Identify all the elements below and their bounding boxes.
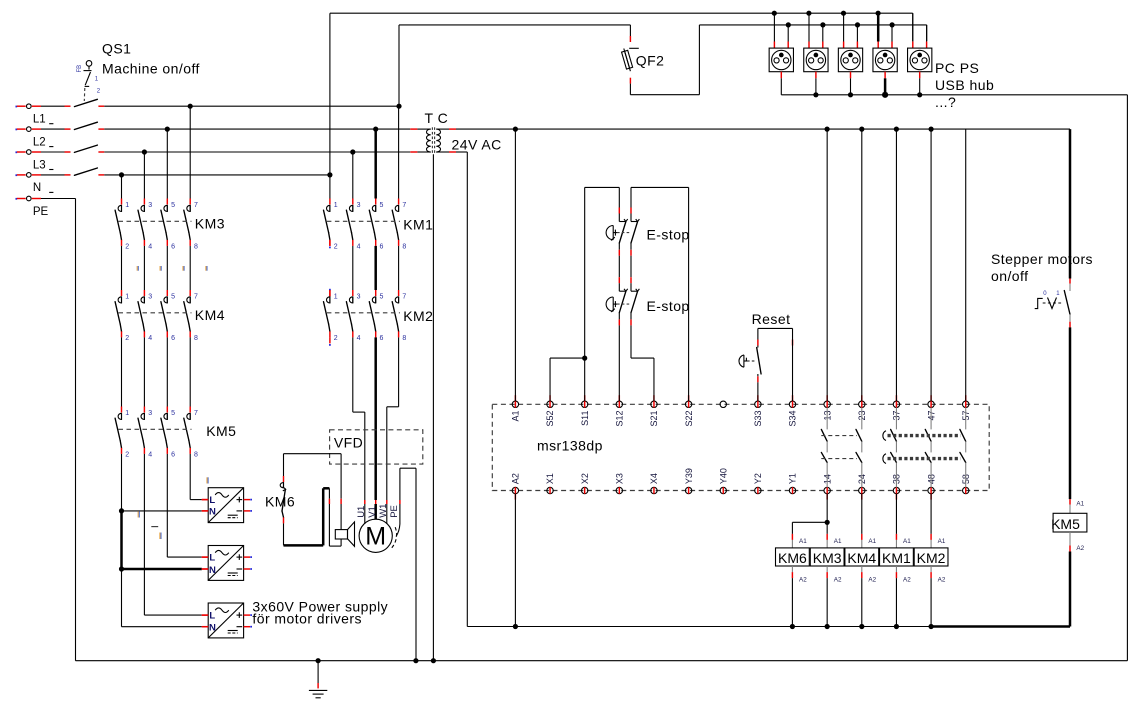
svg-text:8: 8: [402, 335, 406, 342]
E-stop 1 contact a: [618, 208, 620, 214]
svg-text:5: 5: [171, 202, 175, 209]
svg-text:8: 8: [402, 244, 406, 251]
wire KM6 bottom thick path: [283, 523, 285, 545]
wire rail1 end drop to socket5: [912, 13, 914, 41]
wire TC core earth: [432, 154, 434, 660]
svg-text:6: 6: [171, 335, 175, 342]
contact pole 3/4 at x=352.8: [352, 290, 354, 296]
svg-text:L: L: [209, 495, 215, 506]
wire L1 row: [104, 105, 399, 107]
svg-text:1: 1: [125, 202, 129, 209]
wire PE to earth rail: [415, 468, 417, 661]
contact pole 5/6 at x=167.3: [166, 407, 168, 413]
contact pole 7/8 at x=190.2: [189, 407, 191, 413]
svg-text:QF2: QF2: [636, 53, 665, 69]
svg-text:X1: X1: [545, 473, 555, 484]
svg-text:6: 6: [171, 452, 175, 459]
svg-text:L2: L2: [33, 136, 46, 148]
svg-text:V1: V1: [367, 506, 378, 518]
wires KM1 to KM2: [329, 240, 331, 246]
svg-text:4: 4: [148, 452, 152, 459]
wire top rail 1: [330, 12, 913, 14]
svg-text:3: 3: [148, 294, 152, 301]
wire A1 feed: [514, 129, 516, 401]
svg-text:6: 6: [380, 335, 384, 342]
svg-text:7: 7: [194, 410, 198, 417]
svg-text:KM4: KM4: [195, 307, 225, 323]
svg-text:KM6: KM6: [778, 550, 807, 566]
wire A2 to 0V rail: [514, 494, 516, 627]
svg-text:6: 6: [171, 244, 175, 251]
contact pole 5/6 at x=375.7: [375, 199, 377, 205]
svg-text:S22: S22: [684, 411, 694, 427]
svg-text:2: 2: [125, 335, 129, 342]
wires msr contacts to 24V rail: [826, 129, 828, 401]
power supply PSU3: [208, 603, 243, 638]
wire top rail 1 left drop to N row: [329, 13, 331, 175]
svg-text:KM1: KM1: [882, 550, 911, 566]
wire speaker feed: [340, 454, 342, 499]
svg-text:2: 2: [334, 335, 338, 342]
wires KM2 to VFD/motor: [352, 337, 354, 412]
svg-text:L: L: [209, 553, 215, 564]
svg-text:PE: PE: [389, 505, 400, 518]
svg-text:Y1: Y1: [788, 473, 798, 484]
wires KM3 to KM4: [121, 246, 123, 290]
contact pole 3/4 at x=352.8: [352, 199, 354, 205]
svg-text:KM1: KM1: [403, 217, 433, 233]
svg-text:N: N: [209, 565, 216, 576]
svg-text:1: 1: [125, 294, 129, 301]
contact pole 3/4 at x=144.4: [143, 290, 145, 296]
svg-text:W1: W1: [378, 504, 389, 518]
socket outlet at x=850.5: [843, 13, 845, 41]
svg-text:4: 4: [357, 335, 361, 342]
svg-text:A2: A2: [1076, 545, 1084, 552]
box VFD: [330, 430, 423, 464]
wire 24V 0V rail: [467, 626, 931, 628]
wires drops to KM1: [329, 175, 331, 199]
contact pole 1/2 at x=329.9: [329, 199, 331, 205]
E-stop 1 contact b: [630, 208, 632, 214]
svg-text:5: 5: [171, 294, 175, 301]
svg-text:Reset: Reset: [752, 311, 791, 327]
wire motor PE: [399, 468, 401, 500]
svg-text:A1: A1: [1076, 500, 1084, 507]
coil KM3: [826, 534, 828, 540]
E-stop 2 actuator: [606, 297, 613, 311]
wire between E-stop1/2 left: [618, 256, 620, 278]
svg-text:on/off: on/off: [991, 268, 1028, 284]
svg-text:3: 3: [148, 410, 152, 417]
contact pole 5/6 at x=375.7: [375, 290, 377, 296]
safety relay msr138dp box: [492, 404, 989, 490]
svg-text:8: 8: [194, 452, 198, 459]
svg-text:5: 5: [171, 410, 175, 417]
svg-text:S52: S52: [545, 411, 555, 427]
msr138dp top pins: [512, 401, 518, 407]
svg-text:3: 3: [148, 202, 152, 209]
svg-text:E-stop: E-stop: [647, 298, 690, 314]
svg-text:A1: A1: [938, 538, 946, 545]
contact pole 3/4 at x=144.4: [143, 407, 145, 413]
speaker buzzer: [335, 530, 347, 539]
svg-text:KM4: KM4: [847, 550, 876, 566]
wire N row: [104, 174, 330, 176]
msr138dp bottom pins: [512, 487, 518, 493]
svg-text:KM3: KM3: [813, 550, 842, 566]
svg-text:X3: X3: [615, 473, 625, 484]
svg-text:Y2: Y2: [753, 473, 763, 484]
contact pole 5/6 at x=167.3: [166, 199, 168, 205]
svg-text:1: 1: [334, 294, 338, 301]
wires coils to 0V rail: [791, 578, 793, 626]
wire E-stop right to S21: [630, 325, 632, 358]
svg-text:A2: A2: [799, 576, 807, 583]
svg-text:U1: U1: [356, 506, 367, 518]
svg-text:S34: S34: [788, 411, 798, 427]
coil KM2: [930, 534, 932, 540]
svg-text:A1: A1: [799, 538, 807, 545]
ground symbol: [317, 661, 319, 683]
contact pole 1/2 at x=121.5: [121, 199, 123, 205]
svg-text:N: N: [209, 623, 216, 634]
svg-text:3: 3: [357, 294, 361, 301]
terminal L1: [15, 106, 17, 108]
svg-text:A2: A2: [834, 576, 842, 583]
wire top rail 2 left segment: [399, 24, 630, 26]
svg-text:VFD: VFD: [334, 435, 363, 451]
motor PE dashed arc: [392, 527, 397, 548]
terminal L3: [15, 151, 17, 153]
svg-text:2: 2: [125, 244, 129, 251]
svg-text:Stepper motors: Stepper motors: [991, 251, 1093, 267]
svg-text:Y39: Y39: [684, 468, 694, 484]
fuse QF2: [629, 25, 631, 36]
svg-text:L: L: [209, 611, 215, 622]
svg-text:4: 4: [357, 244, 361, 251]
power supply PSU2: [208, 546, 243, 581]
motor M: [359, 519, 392, 552]
svg-text:N: N: [209, 507, 216, 518]
wire KM5 pin4 to PSU3 L: [143, 454, 145, 615]
terminal PE: [15, 198, 17, 200]
svg-text:L1: L1: [33, 114, 46, 126]
socket outlet at x=781.3: [773, 13, 775, 41]
svg-text:A1: A1: [903, 538, 911, 545]
svg-text:M: M: [365, 523, 386, 551]
socket outlet at x=919.7: [912, 13, 914, 41]
svg-text:8: 8: [194, 335, 198, 342]
svg-text:E-stop: E-stop: [647, 227, 690, 243]
wire 24 to KM4 coil: [861, 494, 863, 534]
transformer TC: [426, 129, 430, 152]
svg-text:4: 4: [148, 244, 152, 251]
wire to PSU2 N: [122, 568, 202, 571]
wire top rail 2 left drop to L1 row: [398, 25, 400, 106]
svg-text:A1: A1: [868, 538, 876, 545]
svg-text:...?: ...?: [935, 94, 956, 110]
svg-text:Machine on/off: Machine on/off: [102, 61, 200, 77]
wire PE left vertical: [75, 199, 77, 661]
svg-text:L3: L3: [33, 159, 46, 171]
wire 48 to KM2 coil: [930, 494, 932, 534]
wire 14 to KM3 coil and KM6 branch: [826, 494, 828, 534]
svg-text:1: 1: [125, 410, 129, 417]
wire S52 link: [549, 358, 551, 401]
wire 24VAC live rail: [436, 128, 449, 130]
dead-end KM2 pin2: [329, 337, 331, 343]
wire top rail 2 right segment: [699, 24, 926, 26]
svg-text:3: 3: [357, 202, 361, 209]
contact pole 3/4 at x=144.4: [143, 199, 145, 205]
contact pole 7/8 at x=398.6: [398, 290, 400, 296]
svg-text:KM5: KM5: [206, 423, 236, 439]
svg-text:PC PS: PC PS: [935, 60, 979, 76]
svg-text:T C: T C: [425, 110, 449, 126]
contact pole 1/2 at x=329.9: [329, 290, 331, 296]
coil KM1: [895, 534, 897, 540]
svg-text:msr138dp: msr138dp: [537, 438, 603, 454]
socket outlet at x=815.9: [808, 13, 810, 41]
E-stop 2 contact a: [618, 277, 620, 283]
msr138dp internal contacts: [826, 408, 828, 430]
power supply PSU1: [208, 488, 243, 523]
svg-text:X2: X2: [580, 473, 590, 484]
svg-text:för motor drivers: för motor drivers: [252, 611, 362, 627]
contact pole 7/8 at x=190.2: [189, 199, 191, 205]
svg-text:Y40: Y40: [718, 468, 728, 484]
svg-text:PE: PE: [33, 206, 49, 218]
wire E-stop left to S12: [618, 325, 620, 401]
wire S11 riser: [584, 187, 586, 401]
wire L2 row: [104, 128, 410, 130]
wire rail2 end drop to socket5: [926, 25, 928, 41]
wires phase drops to KM3: [121, 175, 123, 199]
svg-text:S12: S12: [615, 411, 625, 427]
wire earth rail: [76, 660, 1128, 662]
wire 24V rail right drop: [1069, 129, 1072, 278]
svg-text:KM5: KM5: [1051, 516, 1080, 532]
wire S22 riser: [688, 187, 690, 401]
wire PE row to left drop: [41, 198, 76, 200]
contact pole 1/2 at x=121.5: [121, 290, 123, 296]
wire speaker return: [328, 488, 330, 498]
switch QS1 pole L1: [74, 99, 97, 106]
svg-text:1: 1: [334, 202, 338, 209]
contact pole 5/6 at x=167.3: [166, 290, 168, 296]
svg-text:S11: S11: [580, 411, 590, 426]
svg-text:KM6: KM6: [265, 494, 295, 510]
Reset actuator: [739, 355, 744, 367]
wire Reset loop: [757, 328, 759, 339]
wire L3 row: [104, 151, 410, 153]
wire between E-stop1/2 right: [630, 256, 632, 278]
socket outlet at x=885.1: [877, 13, 880, 41]
coil KM5: [1069, 499, 1071, 505]
svg-text:KM2: KM2: [917, 550, 946, 566]
svg-text:X4: X4: [649, 473, 659, 484]
terminal L2: [15, 129, 17, 131]
svg-text:N: N: [33, 182, 41, 194]
svg-text:5: 5: [380, 202, 384, 209]
svg-text:2: 2: [125, 452, 129, 459]
wire TC secondary return: [436, 151, 449, 153]
svg-text:8: 8: [194, 244, 198, 251]
svg-text:QS1: QS1: [102, 41, 131, 57]
wire KM5 A2 to 0V rail: [1069, 552, 1072, 627]
svg-text:A2: A2: [511, 473, 521, 484]
wire KM5 pin6 to PSU2 L: [166, 454, 168, 557]
switch QS1 aux FB contact: [86, 61, 92, 67]
svg-text:A2: A2: [868, 576, 876, 583]
svg-text:S33: S33: [753, 411, 763, 427]
svg-text:A2: A2: [903, 576, 911, 583]
svg-text:KM2: KM2: [403, 308, 433, 324]
svg-text:7: 7: [194, 294, 198, 301]
svg-text:A1: A1: [834, 538, 842, 545]
wire socket PE bus: [781, 94, 1127, 96]
svg-text:5: 5: [380, 294, 384, 301]
svg-text:6: 6: [380, 244, 384, 251]
svg-text:4: 4: [148, 335, 152, 342]
svg-text:7: 7: [402, 202, 406, 209]
svg-text:7: 7: [402, 294, 406, 301]
wire 38 to KM1 coil: [895, 494, 897, 534]
switch stepper motors on/off: [1069, 279, 1071, 284]
coil KM6: [791, 534, 793, 540]
svg-text:7: 7: [194, 202, 198, 209]
svg-text:A2: A2: [938, 576, 946, 583]
switch QS1 pole L2: [74, 122, 97, 129]
wire KM5 pin8 to PSU1 L: [189, 454, 191, 500]
svg-text:USB hub: USB hub: [935, 77, 994, 93]
contact pole 7/8 at x=190.2: [189, 290, 191, 296]
svg-text:FB: FB: [77, 65, 83, 73]
wire KM6 loop top: [283, 454, 285, 476]
svg-text:A1: A1: [511, 411, 521, 422]
wire KM5 pin2 neutral chain: [121, 454, 123, 511]
wire to PSU3 N: [122, 626, 202, 628]
terminal N: [15, 174, 17, 176]
E-stop 2 contact b: [630, 277, 632, 283]
wire switch to KM5 coil: [1069, 327, 1072, 499]
switch QS1 pole L3: [74, 145, 97, 152]
switch QS1 pole N: [74, 168, 97, 175]
ghost terminal ticks near PSU area: [137, 511, 139, 517]
wire to PSU1 N: [122, 510, 202, 512]
svg-text:24V AC: 24V AC: [452, 137, 502, 153]
contact pole 1/2 at x=121.5: [121, 407, 123, 413]
svg-text:S21: S21: [649, 411, 659, 427]
wire QF2 bypass U: [629, 84, 631, 95]
contact KM6: [283, 476, 285, 482]
svg-text:2: 2: [334, 244, 338, 251]
wires KM4 to KM5: [121, 337, 123, 406]
wire right edge PE drop: [1126, 95, 1128, 661]
coil KM4: [861, 534, 863, 540]
push button Reset: [757, 340, 759, 346]
contact pole 7/8 at x=398.6: [398, 199, 400, 205]
E-stop 1 actuator: [606, 226, 613, 240]
svg-text:KM3: KM3: [195, 215, 225, 231]
